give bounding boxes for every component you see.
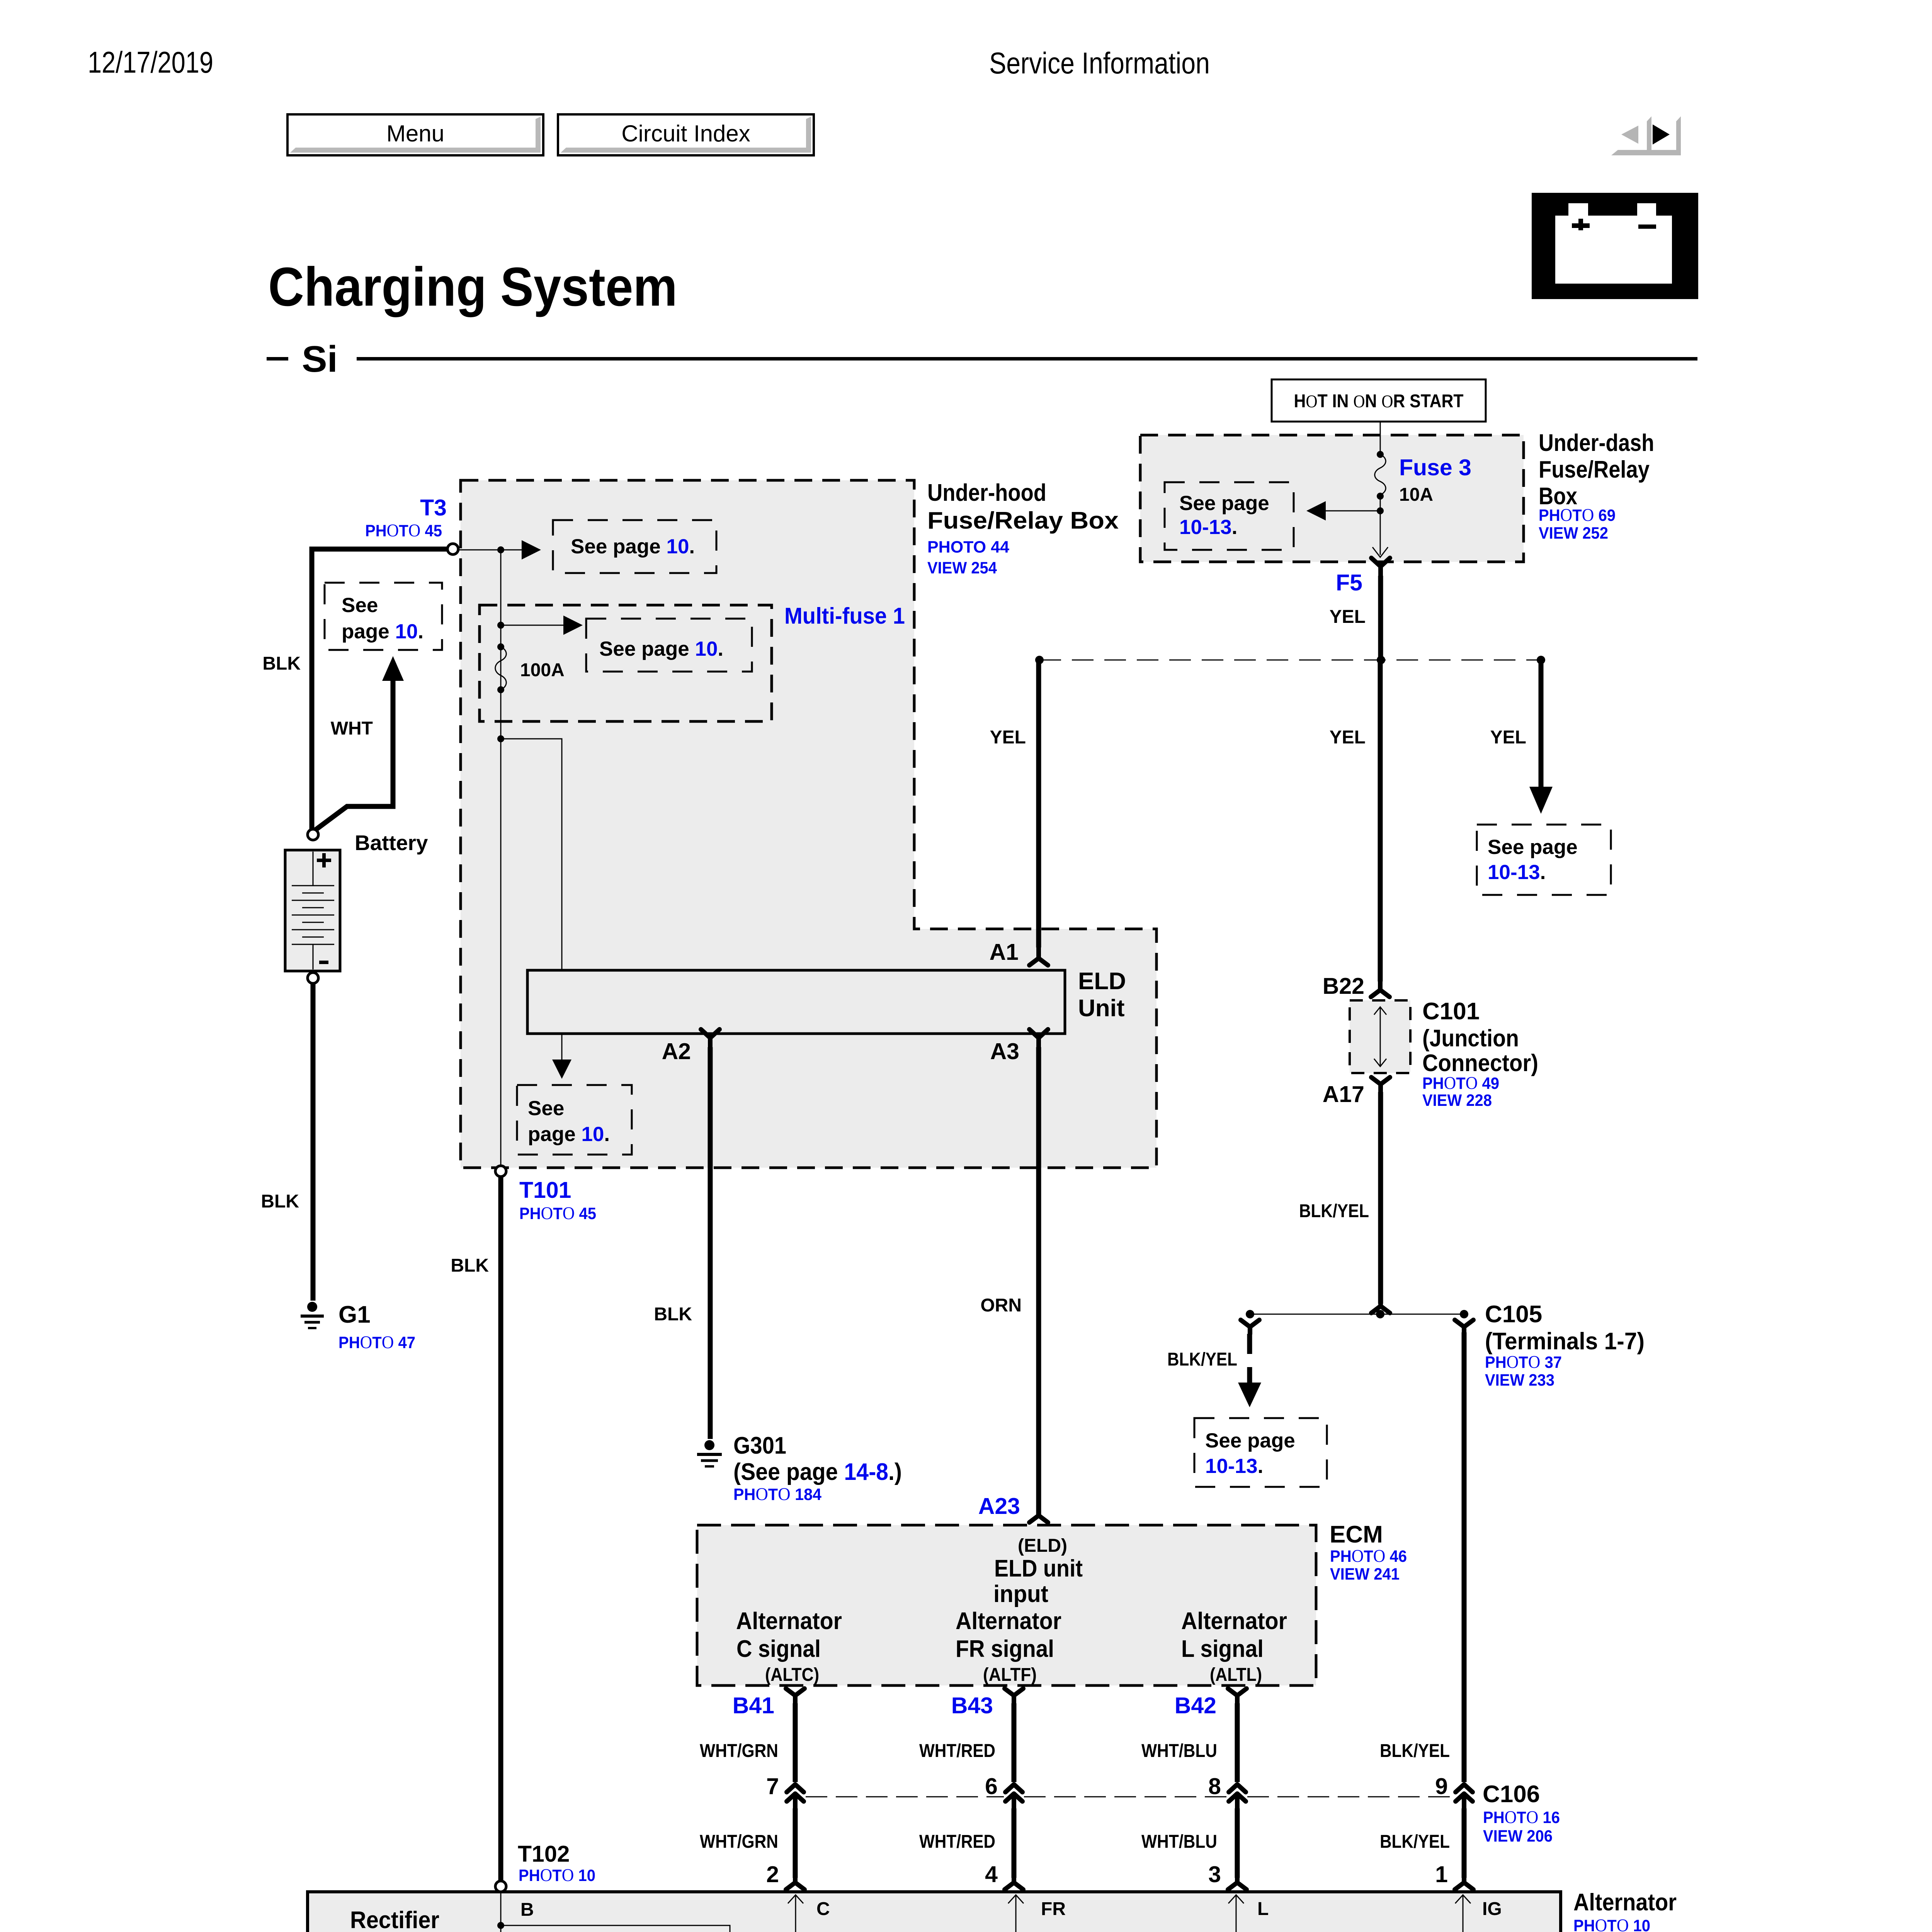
svg-text:WHT/BLU: WHT/BLU [1141,1741,1217,1761]
arrow to see page 10-13 box [1306,501,1380,520]
svg-text:WHT/GRN: WHT/GRN [700,1741,778,1761]
svg-text:PHOTO 47: PHOTO 47 [338,1332,415,1352]
svg-text:Under-hood: Under-hood [927,480,1046,506]
svg-text:(Junction: (Junction [1422,1025,1519,1052]
wire A2 to G301 [708,1047,713,1439]
fuse Multi-fuse 1 100A symbol [495,643,507,693]
svg-text:page 10.: page 10. [342,620,423,643]
connector B42 [1228,1689,1247,1705]
ECM labels [1330,1521,1407,1583]
svg-text:VIEW 252: VIEW 252 [1539,524,1608,543]
svg-text:PHOTO 45: PHOTO 45 [519,1203,596,1223]
svg-text:PHOTO 10: PHOTO 10 [519,1865,595,1885]
svg-text:WHT/RED: WHT/RED [919,1832,995,1852]
wire A17 down [1378,1092,1383,1304]
wire color labels below C106 [700,1832,1450,1852]
see page 10-13 box (right) [1477,825,1611,895]
connector below right node (C105) [1455,1320,1473,1334]
wires C106 to alternator [795,1808,1464,1878]
svg-text:A3: A3 [990,1039,1019,1064]
battery positive terminal circle [308,829,318,840]
button Menu (top) [287,114,543,155]
svg-text:10A: 10A [1399,485,1433,505]
svg-text:L signal: L signal [1181,1636,1264,1662]
arrow into multifuse see page box [501,616,583,635]
svg-text:G1: G1 [338,1301,371,1328]
svg-text:WHT/GRN: WHT/GRN [700,1832,778,1852]
svg-text:Circuit Index: Circuit Index [621,121,750,146]
C106 connector pin 6 [1005,1784,1022,1811]
svg-text:Si: Si [302,338,338,380]
terminal arrow FR [1008,1895,1024,1932]
svg-text:C: C [816,1899,830,1919]
svg-text:BLK: BLK [262,653,301,674]
connector A3 [1029,1029,1048,1049]
node dot left [1246,1310,1254,1318]
C106 connector pin 7 [787,1784,804,1811]
svg-text:8: 8 [1208,1774,1221,1799]
svg-text:Alternator: Alternator [956,1608,1061,1634]
svg-text:PHOTO 10: PHOTO 10 [1573,1915,1650,1932]
svg-text:B42: B42 [1175,1693,1216,1718]
svg-text:Connector): Connector) [1422,1050,1538,1077]
subtitle rule line [357,357,1697,361]
button Circuit Index (top) [558,114,814,155]
connector chevron above C105 line [1371,1298,1390,1313]
nav arrows icon (top right) [1611,116,1681,155]
see page 10-13 box (under-dash) [1165,482,1294,550]
svg-text:WHT/RED: WHT/RED [919,1741,995,1761]
ECM pin function labels [736,1536,1287,1685]
wire B41 to C106 [793,1703,798,1782]
ELD Unit label [1078,968,1126,1022]
svg-text:B: B [520,1900,534,1920]
wire C105 to C106 pin 9 [1462,1332,1467,1782]
junction connector C101 box [1350,1000,1410,1073]
node junction on T3 wire [497,546,504,553]
svg-text:BLK/YEL: BLK/YEL [1380,1741,1450,1761]
svg-text:WHT: WHT [331,718,373,739]
wire F5 down [1378,576,1383,660]
Under-hood box labels [927,480,1119,577]
HOT IN ON OR START box [1272,379,1486,422]
battery negative terminal circle [308,973,318,983]
svg-text:4: 4 [985,1862,998,1887]
svg-text:Charging System: Charging System [268,256,677,318]
svg-text:Alternator: Alternator [1181,1608,1287,1634]
connector into alternator pin 4 [1005,1873,1023,1889]
svg-text:ELD: ELD [1078,968,1126,995]
connector A17 [1371,1077,1390,1094]
svg-text:B43: B43 [951,1693,993,1718]
svg-text:input: input [993,1581,1048,1607]
C106 connector pin 8 [1229,1784,1246,1811]
svg-text:Menu: Menu [386,121,444,146]
connector into alternator pin 3 [1228,1873,1247,1889]
Alternator labels [1573,1889,1677,1932]
svg-text:See: See [342,594,378,617]
terminal arrow C [788,1895,803,1932]
connector A23 [1029,1507,1048,1522]
svg-text:ELD unit: ELD unit [994,1555,1083,1582]
svg-text:See page 10.: See page 10. [571,535,695,558]
svg-text:BLK/YEL: BLK/YEL [1167,1349,1237,1370]
junction dot [497,622,504,629]
svg-text:PHOTO 49: PHOTO 49 [1422,1073,1499,1093]
G301 labels [733,1432,902,1504]
ECM box [697,1525,1316,1685]
connector A1 [1029,947,1048,965]
svg-text:C signal: C signal [736,1636,821,1662]
svg-text:ORN: ORN [980,1295,1022,1316]
wire B22 middle branch down [1378,660,1383,981]
dashed wire with arrow (to see page 10-13) [1238,1334,1261,1407]
see page 10 box (multi-fuse) [586,619,752,672]
svg-text:YEL: YEL [1330,607,1366,627]
svg-text:WHT/BLU: WHT/BLU [1141,1832,1217,1852]
wire B43 to C106 [1012,1703,1017,1782]
see page 10-13 box (bottom) [1194,1418,1327,1487]
terminal arrow IG [1455,1895,1471,1932]
Under-hood Fuse/Relay Box outline [461,480,1156,1168]
fuse Fuse 3 symbol [1375,451,1386,500]
svg-text:FR signal: FR signal [956,1636,1054,1662]
svg-text:A2: A2 [662,1039,691,1064]
C106 labels [1483,1781,1560,1845]
svg-text:B22: B22 [1323,973,1364,999]
svg-text:F5: F5 [1336,570,1362,595]
svg-text:(ELD): (ELD) [1018,1536,1067,1556]
svg-text:PHOTO 16: PHOTO 16 [1483,1807,1560,1827]
svg-text:Battery: Battery [355,831,428,855]
svg-text:BLK: BLK [261,1191,299,1212]
svg-text:BLK/YEL: BLK/YEL [1380,1832,1450,1852]
C101 internal double arrow [1374,1007,1386,1066]
node dot right [1537,656,1545,664]
node dot middle [1376,1310,1384,1318]
svg-text:PHOTO 46: PHOTO 46 [1330,1546,1407,1566]
svg-text:BLK: BLK [451,1255,489,1276]
node dot right [1460,1310,1468,1318]
svg-text:See: See [528,1097,564,1120]
battery B1 [285,850,340,971]
svg-text:Alternator: Alternator [736,1608,842,1634]
connector below left node [1241,1320,1259,1334]
terminal T102 circle [495,1881,506,1892]
svg-text:Fuse 3: Fuse 3 [1399,455,1471,480]
svg-text:Fuse/Relay Box: Fuse/Relay Box [927,507,1119,534]
svg-text:A23: A23 [978,1493,1020,1519]
svg-text:PHOTO 44: PHOTO 44 [927,538,1009,556]
terminal arrow L [1228,1895,1244,1932]
Under-dash box labels [1539,430,1654,543]
junction dot on fuse wire [1377,507,1384,514]
svg-text:(ALTC): (ALTC) [765,1665,819,1685]
svg-text:Multi-fuse 1: Multi-fuse 1 [784,603,905,629]
see page 10 box (left of box) [325,583,442,650]
svg-text:B41: B41 [733,1693,774,1718]
wire from T3 into box with arrow [458,540,541,560]
branch wire to ELD see page arrow [501,739,571,1079]
battery page icon (top right) [1532,193,1698,299]
node dot middle [1377,656,1385,664]
svg-text:Unit: Unit [1078,995,1125,1022]
svg-text:C101: C101 [1422,998,1480,1025]
ground G301 [697,1440,722,1466]
wire B42 to C106 [1235,1703,1240,1782]
C106 connector pin 9 [1456,1784,1473,1811]
svg-text:C106: C106 [1483,1781,1540,1808]
see page 10 box (ELD area) [517,1085,632,1155]
C106 dashed separator [806,1796,1454,1798]
svg-text:See page: See page [1179,492,1269,515]
svg-text:Service Information: Service Information [989,46,1210,80]
wire T101 to T102 [498,1177,503,1881]
svg-text:1: 1 [1435,1862,1448,1887]
svg-text:Rectifier: Rectifier [350,1907,439,1932]
node dot B [497,1922,504,1929]
Multi-fuse 1 box [480,605,772,721]
svg-text:FR: FR [1041,1899,1066,1919]
svg-text:BLK: BLK [654,1304,692,1325]
svg-text:PHOTO 184: PHOTO 184 [733,1484,821,1504]
dashed junction line [1039,660,1541,661]
svg-text:(ALTL): (ALTL) [1210,1665,1262,1685]
svg-text:YEL: YEL [1490,727,1526,748]
connector into alternator pin 2 [786,1873,804,1889]
svg-text:VIEW 228: VIEW 228 [1422,1091,1492,1110]
svg-text:3: 3 [1208,1862,1221,1887]
svg-text:A1: A1 [990,939,1019,965]
wire T3 horizontal to battery branch [312,549,447,829]
main vertical wire in under-hood box [500,550,502,1166]
svg-text:Under-dash: Under-dash [1539,430,1654,456]
svg-text:T3: T3 [420,495,447,520]
connector into alternator pin 1 [1455,1873,1473,1889]
svg-text:See page: See page [1488,836,1578,859]
svg-text:G301: G301 [733,1432,786,1459]
Alternator box [308,1892,1561,1932]
svg-text:VIEW 241: VIEW 241 [1330,1565,1400,1583]
svg-text:T102: T102 [518,1841,570,1867]
svg-text:10-13.: 10-13. [1179,516,1237,539]
svg-text:page 10.: page 10. [528,1123,610,1146]
svg-text:IG: IG [1482,1899,1502,1919]
svg-text:See page: See page [1205,1429,1295,1452]
connector B41 [786,1689,804,1705]
wire right branch with arrow [1529,660,1553,814]
svg-text:T101: T101 [519,1177,571,1203]
svg-text:ECM: ECM [1330,1521,1383,1548]
C105 junction line [1250,1314,1464,1315]
terminal T101 circle [495,1166,506,1177]
svg-text:VIEW 206: VIEW 206 [1483,1827,1553,1845]
subtitle left dash [267,357,288,361]
connector B43 [1005,1689,1023,1705]
terminal T3 circle [447,544,458,554]
svg-text:10-13.: 10-13. [1488,861,1546,884]
svg-text:YEL: YEL [990,727,1026,748]
svg-text:Fuse/Relay: Fuse/Relay [1539,456,1650,483]
WHT arrow wire from battery positive [315,656,404,830]
svg-text:2: 2 [766,1862,779,1887]
svg-text:HOT IN ON OR START: HOT IN ON OR START [1294,391,1464,412]
wire battery negative to G1 [311,983,316,1301]
svg-text:VIEW 254: VIEW 254 [927,559,997,577]
svg-text:C105: C105 [1485,1301,1542,1328]
svg-text:PHOTO 69: PHOTO 69 [1539,505,1616,525]
svg-text:7: 7 [766,1774,779,1799]
svg-text:(ALTF): (ALTF) [983,1665,1037,1685]
svg-text:PHOTO 45: PHOTO 45 [365,520,442,541]
svg-text:12/17/2019: 12/17/2019 [88,45,213,79]
wire A3 to ECM A23 [1036,1047,1041,1516]
svg-text:A17: A17 [1323,1082,1364,1107]
svg-text:YEL: YEL [1330,727,1366,748]
see page 10 box (top) [553,520,716,573]
Under-dash Fuse/Relay Box outline [1140,435,1524,562]
wire A1 from junction to ELD [1036,660,1041,947]
wire color labels above C106 [700,1741,1450,1761]
svg-text:Alternator: Alternator [1573,1889,1677,1916]
wire B into rectifier [500,1892,502,1932]
svg-text:9: 9 [1435,1774,1448,1799]
svg-text:See page 10.: See page 10. [599,638,723,660]
svg-text:6: 6 [985,1774,998,1799]
C101 labels [1422,998,1538,1110]
junction dot lower [497,735,504,742]
svg-text:100A: 100A [520,660,565,680]
svg-text:L: L [1257,1899,1269,1919]
svg-text:BLK/YEL: BLK/YEL [1299,1201,1369,1221]
node dot left [1035,656,1044,664]
svg-text:VIEW 233: VIEW 233 [1485,1371,1554,1389]
connector F5 [1371,558,1390,577]
svg-text:(See page 14-8.): (See page 14-8.) [733,1459,902,1485]
wire B to voltage regulator [501,1925,730,1932]
wire below fuse with down arrow [1372,496,1388,557]
svg-text:10-13.: 10-13. [1205,1455,1263,1478]
connector B22 [1371,979,1389,997]
svg-text:PHOTO 37: PHOTO 37 [1485,1352,1562,1372]
connector A2 [701,1029,719,1049]
ELD Unit box [527,970,1065,1034]
svg-text:(Terminals 1-7): (Terminals 1-7) [1485,1328,1645,1355]
ground G1 [301,1302,324,1328]
C105 labels [1485,1301,1645,1389]
wire from HOT box down [1380,422,1381,454]
